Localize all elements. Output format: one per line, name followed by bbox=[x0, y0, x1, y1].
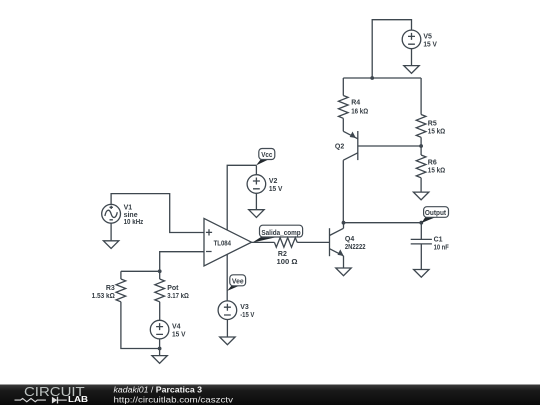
svg-text:100 Ω: 100 Ω bbox=[277, 259, 298, 266]
svg-text:V4: V4 bbox=[172, 323, 181, 330]
svg-text:Vcc: Vcc bbox=[261, 152, 272, 159]
svg-text:R5: R5 bbox=[428, 120, 437, 127]
wire V1 bottom to ground bbox=[110, 223, 112, 241]
ground below V4 bbox=[152, 356, 167, 364]
svg-text:15 kΩ: 15 kΩ bbox=[428, 167, 446, 174]
svg-text:2N2222: 2N2222 bbox=[345, 244, 366, 251]
svg-text:V5: V5 bbox=[423, 33, 432, 40]
svg-text:R2: R2 bbox=[278, 251, 287, 258]
svg-text:R3: R3 bbox=[106, 285, 115, 292]
wire op-amp output to R2 bbox=[252, 241, 275, 243]
voltage source V4 (15 V) bbox=[150, 320, 186, 339]
voltage source V1 (sine 10 kHz) bbox=[102, 204, 144, 226]
svg-text:V1: V1 bbox=[124, 205, 133, 212]
voltage source V3 (-15 V) bbox=[218, 301, 255, 320]
ground below Q4 emitter bbox=[336, 268, 351, 276]
svg-text:15 V: 15 V bbox=[423, 41, 437, 48]
CircuitLab logo bbox=[15, 384, 89, 404]
svg-text:15 kΩ: 15 kΩ bbox=[428, 128, 446, 135]
resistor R4 16 k bbox=[338, 78, 368, 131]
svg-text:Output: Output bbox=[425, 210, 447, 217]
ground below C1 bbox=[414, 270, 429, 278]
transistor Q4 2N2222 bbox=[330, 223, 366, 268]
svg-text:Q2: Q2 bbox=[335, 144, 344, 151]
svg-text:V3: V3 bbox=[240, 304, 249, 311]
net flag Vee bbox=[227, 275, 245, 291]
footer title text bbox=[114, 386, 235, 405]
potentiometer Pot 3.17 k bbox=[155, 271, 189, 301]
svg-text:sine: sine bbox=[124, 212, 138, 219]
svg-text:C1: C1 bbox=[434, 237, 443, 244]
svg-text:3.17 kΩ: 3.17 kΩ bbox=[167, 293, 189, 300]
junction dot R5/R6/Q2 base bbox=[419, 144, 423, 148]
wire supply rail bbox=[343, 77, 421, 79]
footer bar bbox=[0, 385, 540, 405]
svg-text:10 kHz: 10 kHz bbox=[124, 219, 144, 226]
svg-text:15 V: 15 V bbox=[269, 186, 283, 193]
svg-text:10 nF: 10 nF bbox=[434, 245, 450, 252]
wire V4 bottom to ground node bbox=[159, 339, 161, 356]
svg-text:R6: R6 bbox=[428, 159, 437, 166]
voltage source V5 (15 V) bbox=[402, 30, 437, 49]
wire R2 to Q4 base bbox=[297, 241, 329, 243]
wire rail to V5 top bbox=[372, 20, 411, 78]
wire op-amp V- pin to V3 bbox=[226, 255, 228, 302]
svg-text:R4: R4 bbox=[351, 100, 360, 107]
junction dot V4/R3/ground bbox=[158, 347, 162, 351]
ground below V2 bbox=[249, 210, 264, 218]
svg-text:15 V: 15 V bbox=[172, 331, 186, 338]
svg-text:16 kΩ: 16 kΩ bbox=[351, 108, 368, 115]
svg-text:Salida_comp: Salida_comp bbox=[261, 230, 300, 237]
wire op-amp - input to node A bbox=[160, 252, 204, 272]
junction dot on rail bbox=[370, 76, 374, 80]
wire Q2 base to R5/R6 node bbox=[358, 145, 421, 147]
wire Pot bottom to V4 bbox=[159, 302, 161, 321]
wire node A to R3 bbox=[121, 270, 160, 272]
resistor R2 100 ohm bbox=[274, 238, 298, 267]
transistor Q2 (PNP) bbox=[335, 131, 358, 223]
svg-text:1.53 kΩ: 1.53 kΩ bbox=[92, 293, 116, 300]
resistor R5 15 k bbox=[416, 78, 445, 146]
resistor R3 1.53 k bbox=[92, 271, 126, 301]
svg-text:kadaki01 / Parcatica 3: kadaki01 / Parcatica 3 bbox=[114, 386, 203, 395]
junction dot output node bbox=[419, 221, 423, 225]
ground below V5 bbox=[404, 66, 419, 74]
wire node B to output node bbox=[344, 222, 422, 224]
ground below V1 bbox=[103, 241, 118, 249]
voltage source V2 (15 V) bbox=[247, 165, 283, 193]
svg-text:Q4: Q4 bbox=[345, 236, 354, 243]
node A junction dot bbox=[158, 269, 162, 273]
wire R3 bottom to ground rail bbox=[121, 302, 160, 349]
svg-text:-15 V: -15 V bbox=[240, 312, 254, 319]
net flag Vcc bbox=[256, 149, 275, 166]
svg-text:LAB: LAB bbox=[68, 395, 88, 404]
wire V3 bottom to ground bbox=[226, 320, 228, 338]
svg-text:TL084: TL084 bbox=[214, 241, 231, 248]
net flag Salida_comp bbox=[252, 225, 302, 242]
ground below R6 bbox=[413, 192, 428, 200]
svg-text:Vee: Vee bbox=[232, 278, 244, 285]
svg-text:V2: V2 bbox=[269, 178, 278, 185]
op-amp U1 TL084 bbox=[204, 218, 252, 266]
svg-text:Pot: Pot bbox=[167, 285, 179, 292]
capacitor C1 10 nF bbox=[411, 223, 450, 270]
net flag Output bbox=[421, 207, 448, 223]
ground below V3 bbox=[220, 337, 235, 345]
node B junction dot (Q2/Q4 collectors, output wire) bbox=[342, 221, 346, 225]
wire V5 bottom to ground bbox=[411, 49, 413, 66]
wire V2 bottom to ground bbox=[255, 193, 257, 209]
wire V1 top to op-amp + input bbox=[111, 194, 204, 233]
resistor R6 15 k bbox=[416, 146, 445, 192]
svg-text:http://circuitlab.com/caszctv: http://circuitlab.com/caszctv bbox=[114, 395, 235, 404]
wire op-amp V+ pin to Vcc junction bbox=[227, 165, 256, 230]
